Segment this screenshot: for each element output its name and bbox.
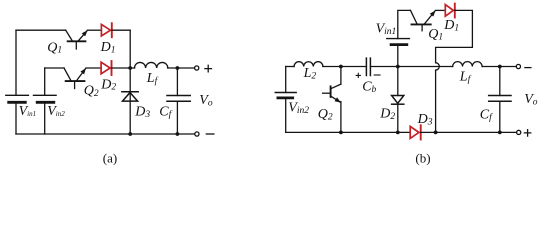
wire: second rail left corner to Q2 (a) [45, 67, 64, 69]
terminal: output - circle (a) [195, 132, 199, 136]
wire: D2 branch vertical (b) [397, 67, 399, 96]
terminal: output - circle (b) [516, 64, 520, 68]
wire: Vin2 bottom to bottom rail (a) [44, 102, 46, 134]
diode D1 (a) red cathode bar [111, 23, 113, 37]
node: junction L2/Q2/Cb (b) [339, 65, 343, 69]
wire: hop down to bottom rail (b) [435, 70, 437, 132]
battery Vin2 (a) thin plate [34, 94, 57, 96]
label: + output (a) [205, 65, 212, 72]
transistor Q1 (b) emitter arrowhead [430, 10, 436, 16]
transistor Q1 (b) collector lead [411, 10, 418, 24]
wire: L2 rail corner segment (b) [286, 66, 294, 68]
wire: L2 to Q2-collector junction (b) [323, 66, 367, 68]
wire: junction up to Vin1 (b) [397, 45, 399, 67]
wire: top rail left segment (a) [16, 29, 66, 31]
wire: bottom rail left of D3 (b) [286, 131, 411, 133]
wire: left vertical from top rail to Vin1 (a) [15, 30, 17, 95]
transistor Q1 (b) emitter lead [424, 11, 435, 24]
transistor Q2 (a) collector lead [64, 68, 71, 81]
inductor Lf (a) [135, 62, 168, 68]
transistor Q1 (a) base bar [68, 40, 86, 42]
wire: bottom rail right of D3 (b) [421, 131, 517, 133]
transistor Q2 (a) base stub [74, 82, 76, 89]
transistor Q2 (b) emitter arrowhead [335, 97, 341, 102]
inductor Lf (b) [453, 62, 482, 67]
diode D3 (b) red cathode bar [420, 125, 422, 139]
wire: Cf branch top (b) [499, 67, 501, 96]
wire: Cf branch bottom (b) [499, 101, 501, 132]
battery Vin2 (b) thick plate [278, 97, 293, 100]
transistor Q1 (b) base stub [421, 25, 423, 31]
battery Vin1 (b) thin plate [387, 38, 410, 40]
label: - output (b) [525, 67, 531, 69]
svg-text:(b): (b) [415, 150, 430, 165]
battery Vin2 (a) thick plate [37, 101, 54, 104]
diode D3 (a) triangle [123, 93, 138, 102]
wire: second-rail left vertical to Vin2 (a) [44, 68, 46, 95]
wire: D1 right then down then left jog (b) [436, 10, 473, 62]
wire: D3 branch vertical (a) [129, 68, 131, 134]
wire: vertical D1 corner down to second rail (a) [129, 30, 131, 68]
transistor Q2 (b) collector lead vertical [340, 67, 342, 85]
diode D1 (a) red triangle [101, 24, 110, 36]
wire: Q2 emitter to D2 (a) [86, 67, 101, 69]
wire: Q1 emitter to D1 (a) [88, 29, 102, 31]
transistor Q2 (a) emitter lead [76, 69, 85, 82]
node: D1 branch junction on bottom rail (b) [434, 131, 438, 135]
transistor Q2 (b) base bar [330, 86, 332, 97]
battery Vin1 (a) thin plate [6, 94, 29, 96]
node: Lf/Cf junction (b) [498, 65, 502, 69]
node: Q2 emitter junction on bottom rail (b) [339, 131, 343, 135]
wire: crossover hop over Cb rail (b) [436, 63, 440, 70]
transistor Q1 (a) collector lead [66, 30, 73, 41]
wire: Lf to output junction (a) [168, 67, 195, 69]
transistor Q2 (b) emitter lead [331, 96, 341, 102]
node: junction D1/D2 branch on second rail (a) [128, 66, 132, 70]
diode D2 (b) cathode bar [392, 103, 404, 105]
label: + output (b) [524, 130, 530, 136]
label: - output (a) [206, 133, 214, 135]
wire: Q1 emitter to D1 (b) [436, 9, 446, 11]
diode D3 (a) cathode bar [122, 91, 138, 93]
wire: left vertical to Vin2 (b) [285, 67, 287, 93]
transistor Q2 (a) emitter arrowhead [80, 68, 86, 74]
capacitor Cb (b) left plate [365, 58, 367, 75]
battery Vin1 (b) thick plate [391, 43, 407, 46]
diode D2 (a) red cathode bar [111, 61, 113, 75]
wire: Cf branch vertical bottom (a) [176, 101, 178, 134]
diode D1 (b) red triangle [445, 5, 453, 17]
transistor Q2 (b) collector diagonal [331, 84, 341, 89]
label: - of Cb (b) [374, 74, 380, 76]
wire: Vin1 top up and over to Q1 (b) [398, 10, 411, 38]
wire: bottom rail (a) [16, 133, 195, 135]
wire: D1 to top-right corner (a) [112, 29, 130, 31]
terminal: output + circle (a) [195, 66, 199, 70]
node: Lf/Cf junction (a) [176, 66, 180, 70]
node: D3 bottom junction (a) [128, 132, 132, 136]
wire: D2 down to bottom rail (b) [397, 104, 399, 132]
node: Cf bottom junction (b) [498, 131, 502, 135]
svg-text:(a): (a) [103, 150, 117, 165]
node: junction Cb/Vin1/D2 (b) [396, 65, 400, 69]
transistor Q2 (a) base bar [66, 80, 85, 82]
transistor Q1 (a) emitter lead [78, 31, 87, 42]
node: D2 junction on bottom rail (b) [396, 131, 400, 135]
capacitor Cf (b) top plate [489, 95, 511, 97]
node: Cf bottom junction (a) [176, 132, 180, 136]
battery Vin2 (b) thin plate [275, 92, 296, 94]
wire: Cb to Vin1/D2 junction (b) [370, 66, 452, 68]
transistor Q1 (a) base stub [75, 42, 77, 49]
transistor Q1 (a) emitter arrowhead [82, 30, 88, 36]
label: + of Cb (b) [356, 73, 360, 77]
transistor Q1 (b) base bar [412, 23, 431, 25]
diode D2 (a) red triangle [101, 62, 110, 74]
battery Vin1 (a) thick plate [9, 101, 26, 104]
inductor L2 (b) [294, 62, 323, 67]
transistor Q2 (b) base stub [323, 92, 331, 94]
capacitor Cf (a) bottom plate [167, 100, 190, 102]
capacitor Cf (a) top plate [167, 95, 190, 97]
wire: Q2 emitter down to bottom rail (b) [340, 102, 342, 133]
diode D2 (b) triangle [392, 96, 404, 104]
capacitor Cf (b) bottom plate [489, 100, 511, 102]
capacitor Cb (b) right plate [369, 58, 371, 75]
wire: Cf branch vertical top (a) [176, 68, 178, 96]
wire: Vin2 bottom to bottom rail (b) [285, 98, 287, 132]
diode D3 (b) red triangle [410, 126, 419, 138]
wire: Vin1 bottom to bottom rail (a) [15, 102, 17, 134]
diode D1 (b) red cathode bar [454, 4, 456, 18]
wire: Lf to output (b) [482, 66, 516, 68]
terminal: output + circle (b) [517, 130, 521, 134]
wire: D2 to junction (a) [112, 67, 135, 69]
